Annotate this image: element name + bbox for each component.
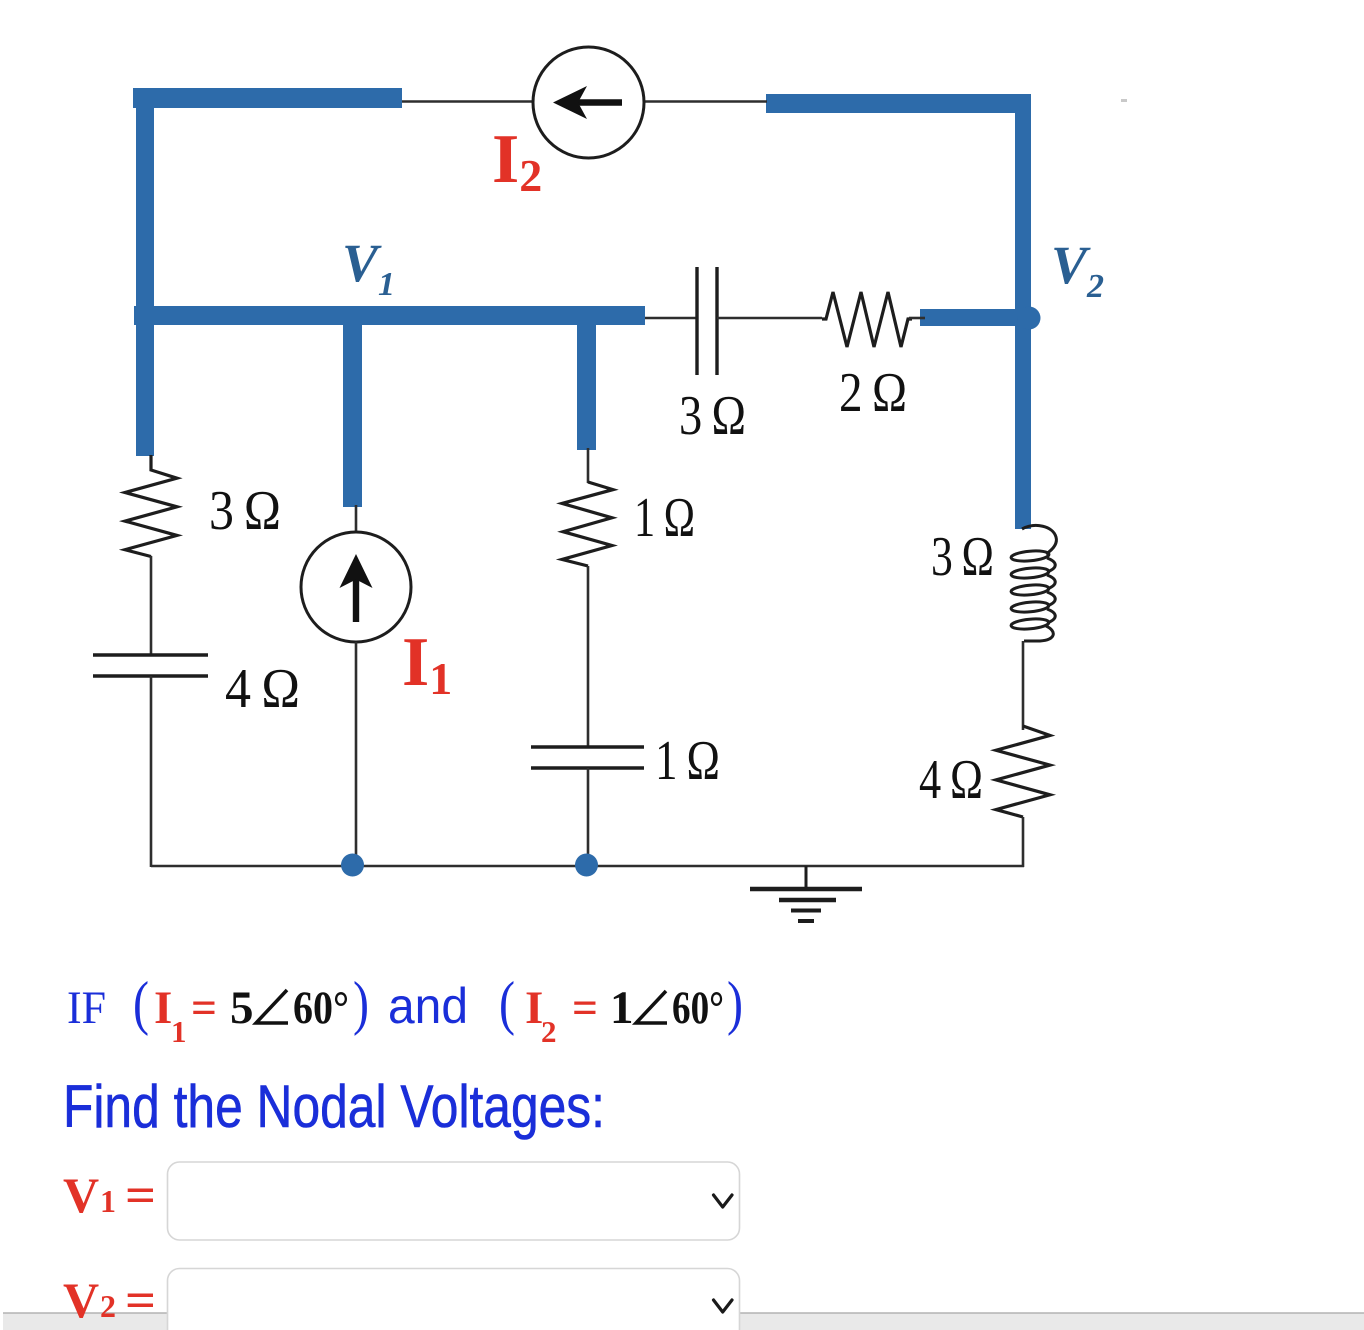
svg-text:2: 2 <box>541 1014 557 1049</box>
resistor 1-ohm (middle) <box>562 482 613 566</box>
svg-text:=: = <box>125 1272 156 1328</box>
problem statement row: IF (I1 = 5/60) and (I2 = 1/60) <box>67 970 743 1049</box>
svg-text:1: 1 <box>171 1014 187 1049</box>
svg-text:1: 1 <box>610 982 634 1034</box>
svg-text:V: V <box>63 1272 99 1328</box>
wire resistor 2-ohm to blue <box>909 317 925 320</box>
decorative small mark top right <box>1121 99 1127 102</box>
current source I2 <box>533 47 644 158</box>
svg-text:4 Ω: 4 Ω <box>919 749 983 811</box>
wire capacitor 1-ohm to bottom <box>587 768 590 866</box>
svg-text:and: and <box>388 978 468 1034</box>
svg-text:=: = <box>191 982 217 1034</box>
svg-text:(: ( <box>133 970 149 1036</box>
wire stub to resistor 1-ohm <box>587 448 590 483</box>
node junction dot (I1 branch) <box>341 854 364 877</box>
svg-text:V: V <box>63 1167 99 1223</box>
wire resistor 4-ohm to bottom <box>1022 817 1025 867</box>
capacitor 4-ohm (left branch) <box>93 655 208 676</box>
capacitor 3-ohm (top middle) <box>697 267 717 375</box>
inductor 3-ohm (right branch) <box>1011 526 1057 641</box>
svg-text:60°: 60° <box>672 982 724 1034</box>
wire stub to 1-ohm resistor (blue) <box>577 306 596 450</box>
svg-text:3 Ω: 3 Ω <box>931 526 994 588</box>
svg-text:): ) <box>353 970 369 1036</box>
resistor 3-ohm (left branch) <box>125 455 177 557</box>
node V2 junction bump <box>1018 307 1041 330</box>
svg-text:1 Ω: 1 Ω <box>655 730 720 792</box>
svg-text:=: = <box>572 982 598 1034</box>
svg-text:1: 1 <box>100 1183 116 1219</box>
svg-text:3 Ω: 3 Ω <box>209 480 281 542</box>
svg-text:IF: IF <box>67 982 106 1034</box>
wire inductor to resistor 4-ohm <box>1022 641 1025 730</box>
wire 2-ohm to V2 (blue) <box>920 309 1016 326</box>
wire node V1 horizontal bus <box>134 306 645 325</box>
wire I2 right lead <box>643 100 767 103</box>
svg-text:): ) <box>727 970 743 1036</box>
wire top-right horizontal (blue, node V2 net) <box>766 94 1031 113</box>
select dropdown V2 <box>168 1269 740 1330</box>
wire stub to I1 (blue) <box>343 306 362 507</box>
label V1 = <box>63 1167 156 1223</box>
wire stub to I1 circle <box>355 505 358 534</box>
wire I2 left lead <box>402 100 535 103</box>
svg-text:3 Ω: 3 Ω <box>679 385 746 447</box>
capacitor 1-ohm (middle) <box>531 747 644 768</box>
svg-text:I1: I1 <box>402 624 452 704</box>
svg-text:I2: I2 <box>492 121 542 201</box>
node junction dot (middle branch) <box>575 854 598 877</box>
svg-text:1 Ω: 1 Ω <box>634 487 695 549</box>
wire resistor 1-ohm to capacitor 1-ohm <box>587 566 590 748</box>
svg-text:(: ( <box>499 970 515 1036</box>
wire capacitor to resistor 2-ohm <box>717 317 822 320</box>
svg-text:V1: V1 <box>342 233 395 303</box>
ground <box>750 866 862 921</box>
select dropdown V1 <box>168 1162 740 1240</box>
svg-text:Find the Nodal Voltages:: Find the Nodal Voltages: <box>63 1073 605 1140</box>
svg-text:60°: 60° <box>293 982 349 1034</box>
svg-text:I: I <box>154 982 172 1034</box>
wire bottom bus <box>151 865 1024 868</box>
wire top-left horizontal (blue, node V1 net) <box>133 88 402 108</box>
wire resistor to capacitor (left branch) <box>150 556 153 656</box>
resistor 2-ohm <box>822 292 912 347</box>
label V2 = <box>63 1272 156 1328</box>
wire left vertical (blue) <box>136 88 154 456</box>
svg-text:5: 5 <box>230 982 254 1034</box>
wire V1 to capacitor 3-ohm <box>645 317 697 320</box>
current source I1 <box>301 532 411 642</box>
svg-text:=: = <box>125 1167 156 1223</box>
resistor 4-ohm (right branch) <box>996 726 1050 817</box>
bottom gray bar <box>3 1313 1364 1330</box>
svg-text:4 Ω: 4 Ω <box>225 658 300 720</box>
wire left branch to bottom <box>150 676 153 867</box>
wire right vertical (blue, node V2) <box>1015 94 1031 529</box>
svg-text:2: 2 <box>100 1288 116 1324</box>
svg-text:V2: V2 <box>1051 235 1104 305</box>
svg-text:2 Ω: 2 Ω <box>839 362 907 424</box>
wire I1 to bottom <box>355 642 358 866</box>
